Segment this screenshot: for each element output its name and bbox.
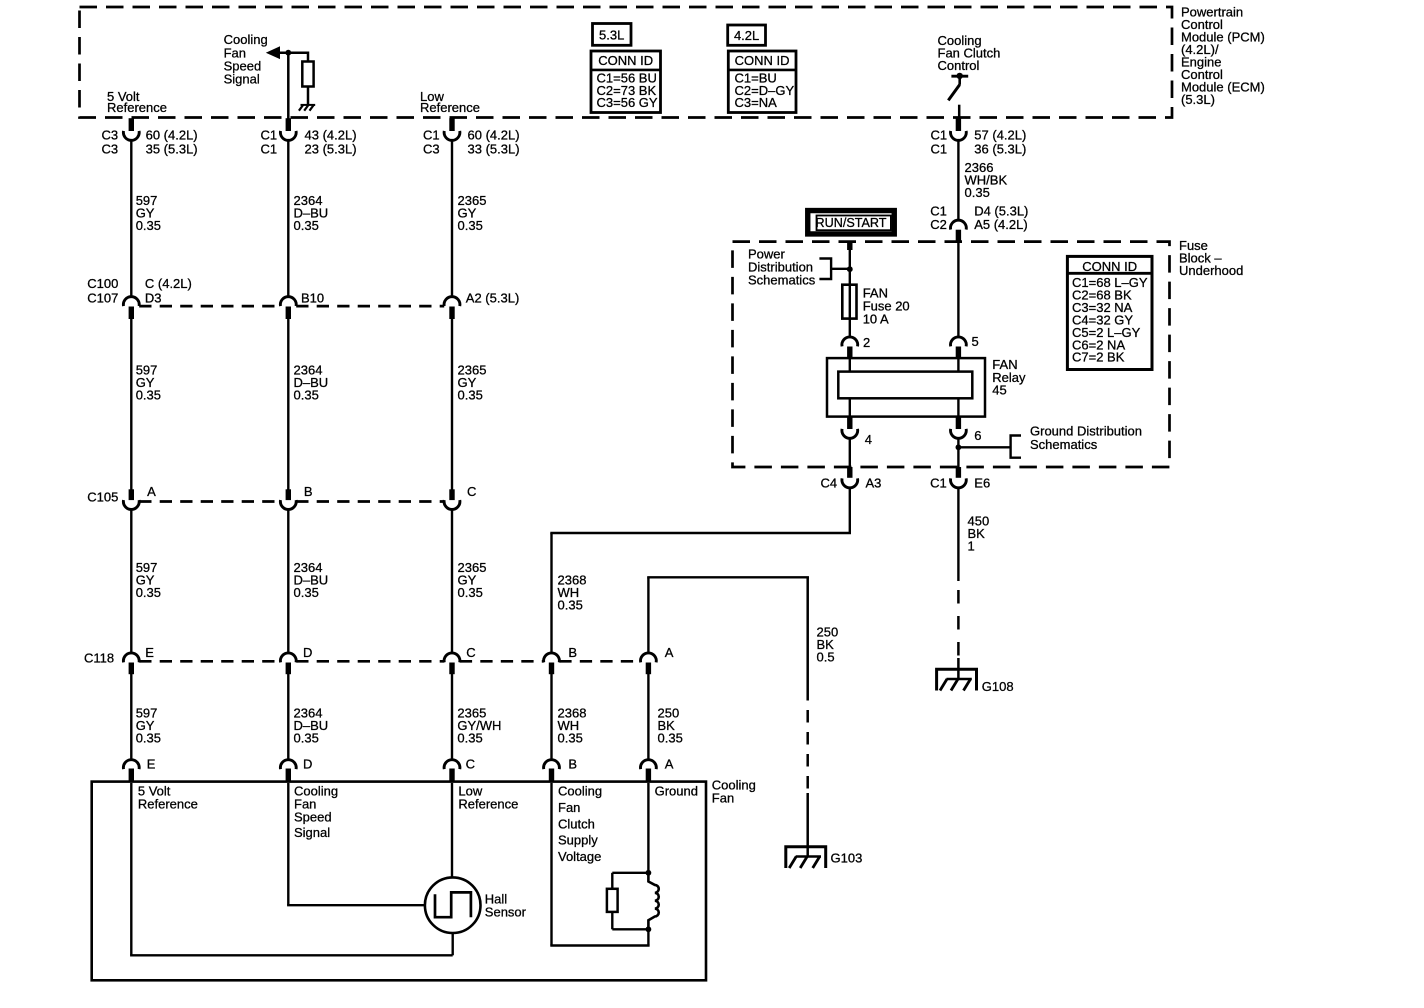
wire relay pin2 internal lower — [849, 398, 851, 416]
wire corner down to resistor — [307, 52, 310, 62]
connector stub below C100 row x=288.3 — [286, 307, 291, 320]
svg-text:10 A: 10 A — [863, 311, 889, 326]
svg-text:Reference: Reference — [458, 796, 518, 811]
switch blade (open) — [948, 85, 959, 101]
wire resistor to chassis ground — [307, 87, 310, 105]
wire through fuse — [849, 285, 851, 338]
connector stub below C118 x=288.3 — [286, 663, 291, 675]
svg-text:0.35: 0.35 — [294, 388, 319, 403]
connector terminal stub at PCM exit x=958.4 — [956, 118, 961, 131]
wire D horizontal to hall sensor — [287, 904, 425, 906]
wire segment C100 to C105 x=452.0 — [451, 319, 453, 490]
svg-text:RUN/START: RUN/START — [816, 215, 887, 230]
svg-text:CONN ID: CONN ID — [598, 53, 653, 68]
svg-text:0.35: 0.35 — [136, 731, 161, 746]
svg-text:Voltage: Voltage — [558, 849, 601, 864]
wire coil top to resistor branch — [612, 872, 649, 874]
wire resistor bottom horizontal — [612, 928, 648, 930]
connector stub into fan box x=551.5 — [549, 769, 554, 782]
PCM/ECM module dashed boundary box — [80, 7, 1173, 118]
dashed connector line C100 seg B — [296, 305, 444, 308]
svg-text:A5 (4.2L): A5 (4.2L) — [974, 217, 1027, 232]
connector cup relay pin 4 — [842, 429, 858, 438]
connector cup C105 x=131.3 — [123, 500, 139, 509]
connector dome C1/C2 (fuse block entry) — [951, 220, 967, 229]
svg-text:Speed: Speed — [294, 810, 332, 825]
svg-text:Reference: Reference — [138, 796, 198, 811]
wire segment C105 to C118 x=452.0 — [451, 510, 453, 654]
connector stub into fan box x=452.0 — [449, 769, 454, 782]
connector stub above C105 x=131.3 — [129, 489, 134, 500]
svg-text:C3: C3 — [423, 141, 440, 156]
wire arrow to resistor corner — [279, 51, 309, 54]
svg-text:C: C — [467, 484, 476, 499]
connector dome C118 x=131.3 — [123, 653, 139, 662]
svg-text:C2: C2 — [930, 217, 947, 232]
svg-text:C3: C3 — [102, 141, 119, 156]
svg-text:Cooling: Cooling — [558, 784, 602, 799]
svg-text:C100: C100 — [87, 276, 118, 291]
svg-text:0.35: 0.35 — [294, 731, 319, 746]
wire 2368 from C4/A3 elbow horizontal — [550, 532, 851, 534]
connector dome fan box x=648.4 — [641, 760, 657, 769]
connector cup relay pin 6 — [951, 429, 967, 438]
svg-text:A2 (5.3L): A2 (5.3L) — [466, 291, 519, 306]
wire segment C100 to C105 x=131.3 — [130, 319, 132, 490]
connector dome C100 row x=288.3 — [280, 297, 296, 306]
node junction dot coil top — [646, 870, 652, 876]
switch stem — [958, 76, 961, 85]
fuse F1 FAN 10A body — [842, 285, 856, 319]
svg-text:45: 45 — [992, 383, 1006, 398]
dashed connector line C118 seg D — [559, 660, 640, 663]
connector dome C100 row x=452.0 — [444, 297, 460, 306]
svg-text:B: B — [568, 757, 577, 772]
hall sensor square-wave glyph — [435, 892, 471, 917]
svg-text:0.35: 0.35 — [458, 218, 483, 233]
svg-text:G108: G108 — [982, 679, 1014, 694]
svg-text:5: 5 — [972, 334, 979, 349]
CONN ID table (5.3L) — [591, 51, 661, 113]
svg-text:0.35: 0.35 — [558, 598, 583, 613]
connector stub relay pin 6 — [956, 417, 961, 429]
connector dome fan box x=131.3 — [123, 760, 139, 769]
connector cup C105 x=288.3 — [280, 500, 296, 509]
svg-text:G103: G103 — [831, 851, 863, 866]
svg-text:D: D — [303, 757, 312, 772]
svg-text:Reference: Reference — [107, 100, 167, 115]
svg-text:C105: C105 — [87, 490, 118, 505]
wire resistor bottom down — [611, 912, 613, 929]
CONN ID table (fuse block underhood) — [1067, 256, 1152, 369]
dashed connector line C105 seg A — [139, 500, 280, 503]
svg-text:33 (5.3L): 33 (5.3L) — [468, 141, 520, 156]
svg-text:Schematics: Schematics — [1030, 437, 1098, 452]
wire A (ground) down to clutch coil — [647, 783, 649, 873]
wire segment C118 to fan box x=131.3 — [130, 674, 132, 760]
svg-text:0.35: 0.35 — [294, 218, 319, 233]
wire switch to PCM edge — [958, 105, 961, 119]
svg-text:Reference: Reference — [420, 100, 480, 115]
svg-text:2: 2 — [863, 335, 870, 350]
connector stub above C105 x=452.0 — [449, 489, 454, 500]
svg-text:E6: E6 — [974, 476, 990, 491]
wire coil bottom to B horizontal — [647, 929, 649, 945]
wire relay pin2 internal upper — [849, 358, 851, 372]
resistor R1 (PCM pull-down) — [302, 62, 313, 87]
ground G103 symbol — [786, 847, 826, 868]
connector stub RUN/START into fuse block — [847, 242, 852, 250]
svg-text:6: 6 — [974, 428, 981, 443]
svg-text:Schematics: Schematics — [748, 273, 816, 288]
connector dome relay pin 5 — [951, 337, 967, 346]
connector stub C1/C2 into fuse block — [956, 230, 961, 242]
wire E bottom horizontal to hall sensor — [130, 954, 453, 956]
svg-text:C118: C118 — [84, 651, 114, 666]
relay K1 FAN Relay 45 outer box — [827, 358, 985, 417]
connector stub below C118 x=551.5 — [549, 663, 554, 675]
wire segment C118 to fan box x=452.0 — [451, 674, 453, 760]
connector cup at PCM exit x=452.0 — [444, 131, 460, 140]
svg-text:Sensor: Sensor — [485, 905, 527, 920]
svg-text:0.35: 0.35 — [136, 585, 161, 600]
connector stub below C100 row x=452.0 — [449, 307, 454, 320]
connector terminal stub at PCM exit x=131.3 — [129, 118, 134, 131]
wire 250 BK drop solid upper — [806, 577, 809, 688]
svg-text:A3: A3 — [866, 476, 882, 491]
wire segment PCM to C100 x=131.3 — [130, 140, 132, 297]
wire segment PCM to C100 x=452.0 — [451, 140, 453, 297]
svg-text:5.3L: 5.3L — [599, 27, 624, 42]
wire segment C118 to fan box x=551.5 — [550, 674, 552, 760]
connector cup at PCM exit x=958.4 — [951, 131, 967, 140]
svg-text:CONN ID: CONN ID — [1082, 259, 1137, 274]
svg-text:C4: C4 — [821, 476, 838, 491]
connector stub relay pin 2 — [847, 347, 852, 359]
wire segment C105 to C118 x=131.3 — [130, 510, 132, 654]
wire segment C118 to fan box x=288.3 — [287, 674, 289, 760]
CONN ID header separator (4.2L) — [728, 69, 796, 72]
wire to ground distribution bracket — [958, 446, 1010, 448]
connector dome C118 x=551.5 — [544, 653, 560, 662]
connector stub below C118 x=648.4 — [646, 663, 651, 675]
svg-text:E: E — [145, 645, 154, 660]
svg-text:B: B — [304, 484, 313, 499]
connector dome C118 x=648.4 — [641, 653, 657, 662]
connector stub into fan box x=131.3 — [129, 769, 134, 782]
inductor L1 fan clutch coil — [648, 873, 658, 930]
connector cup C105 x=452.0 — [444, 500, 460, 509]
svg-text:60 (4.2L): 60 (4.2L) — [468, 127, 520, 142]
svg-text:0.35: 0.35 — [136, 388, 161, 403]
svg-text:C1: C1 — [930, 476, 947, 491]
ground G108 symbol — [937, 658, 977, 691]
node junction dot at speed signal tap — [285, 50, 291, 56]
svg-text:C3=NA: C3=NA — [735, 95, 778, 110]
svg-text:C107: C107 — [87, 291, 118, 306]
dashed connector line C100 seg A — [139, 305, 280, 308]
svg-text:Underhood: Underhood — [1179, 263, 1243, 278]
dashed connector line C118 seg B — [296, 660, 444, 663]
bracket to power distribution schematics — [819, 259, 831, 280]
connector stub below C118 x=452.0 — [449, 663, 454, 675]
svg-text:A: A — [665, 757, 674, 772]
RUN/START power feed box (thick) — [808, 211, 895, 234]
wire relay pin5 internal lower — [957, 398, 959, 416]
svg-text:C (4.2L): C (4.2L) — [145, 276, 192, 291]
wire B (clutch supply) down inside box — [550, 783, 552, 946]
svg-text:43 (4.2L): 43 (4.2L) — [305, 127, 357, 142]
svg-text:1: 1 — [968, 539, 975, 554]
connector dome fan box x=551.5 — [544, 760, 560, 769]
svg-text:Fan: Fan — [558, 800, 580, 815]
wire 250 BK drop solid lower — [806, 793, 809, 847]
relay inner contact bar — [838, 372, 972, 399]
wire RUN/START to fuse — [849, 250, 851, 286]
svg-text:C7=2 BK: C7=2 BK — [1072, 350, 1125, 365]
node junction dot ground distribution tap — [956, 444, 962, 450]
svg-text:Signal: Signal — [294, 825, 330, 840]
node junction dot power distribution tap — [847, 266, 853, 272]
CONN ID table (4.2L) — [728, 51, 796, 113]
wire 450 BK solid segment — [957, 488, 959, 581]
svg-text:0.5: 0.5 — [817, 650, 835, 665]
wire speed signal tap down to PCM edge — [287, 53, 290, 119]
svg-text:C1: C1 — [931, 127, 948, 142]
hall sensor circle — [425, 877, 481, 933]
svg-text:C3=56 GY: C3=56 GY — [597, 95, 658, 110]
svg-text:0.35: 0.35 — [294, 585, 319, 600]
svg-text:B: B — [568, 645, 577, 660]
svg-text:0.35: 0.35 — [658, 731, 683, 746]
connector dome fan box x=288.3 — [280, 760, 296, 769]
wire segment C100 to C105 x=288.3 — [287, 319, 289, 490]
connector dome relay pin 2 — [842, 337, 858, 346]
svg-text:0.35: 0.35 — [458, 388, 483, 403]
svg-text:A: A — [147, 484, 156, 499]
connector stub below C100 row x=131.3 — [129, 307, 134, 320]
wire B bottom horizontal — [550, 944, 649, 946]
wire 250 BK drop dashed — [806, 688, 809, 789]
dashed connector line C118 seg C — [460, 660, 544, 663]
fuse block underhood dashed boundary box — [733, 242, 1170, 467]
label box 5.3L — [593, 24, 632, 46]
dashed connector line C105 seg B — [296, 500, 444, 503]
resistor R2 (fan clutch) — [607, 889, 618, 912]
signal arrow head — [266, 46, 280, 59]
node junction dot coil bottom — [646, 926, 652, 932]
bracket to ground distribution schematics — [1011, 436, 1021, 458]
svg-text:4: 4 — [865, 432, 872, 447]
ground chassis symbol (PCM internal) — [299, 105, 315, 111]
CONN ID header separator (fuse block) — [1067, 272, 1152, 275]
wire segment PCM to C100 x=288.3 — [287, 140, 289, 297]
cooling fan component box — [92, 782, 706, 981]
connector dome fan box x=452.0 — [444, 760, 460, 769]
connector dome C100 row x=131.3 — [123, 297, 139, 306]
svg-text:0.35: 0.35 — [558, 731, 583, 746]
switch fixed contact bar — [951, 75, 968, 78]
connector cup C4/A3 — [842, 478, 858, 487]
wire 250 elbow horizontal to G103 drop — [647, 576, 809, 578]
svg-text:36 (5.3L): 36 (5.3L) — [974, 141, 1026, 156]
svg-text:Clutch: Clutch — [558, 816, 595, 831]
wire 250 vertical col5 to C118 — [647, 577, 649, 653]
svg-text:C1: C1 — [261, 141, 278, 156]
connector stub above C105 x=288.3 — [286, 489, 291, 500]
connector cup C1/E6 — [951, 478, 967, 487]
wire 2368 vertical col4 to C118 — [550, 533, 552, 653]
svg-text:Fan: Fan — [712, 791, 734, 806]
dashed connector line C118 seg A — [139, 660, 280, 663]
svg-text:60 (4.2L): 60 (4.2L) — [146, 127, 198, 142]
connector cup at PCM exit x=131.3 — [123, 131, 139, 140]
svg-text:0.35: 0.35 — [136, 218, 161, 233]
connector cup at PCM exit x=288.3 — [280, 131, 296, 140]
wire D (speed signal) down inside box — [287, 783, 289, 905]
svg-text:D3: D3 — [145, 291, 162, 306]
svg-text:CONN ID: CONN ID — [735, 53, 790, 68]
svg-text:B10: B10 — [301, 291, 324, 306]
svg-text:Ground: Ground — [655, 783, 698, 798]
wire segment C118 to fan box x=648.4 — [647, 674, 649, 760]
wire hall sensor bottom — [452, 933, 454, 955]
svg-text:0.35: 0.35 — [457, 731, 482, 746]
wire relay pin 6 down — [957, 438, 959, 467]
svg-text:C1: C1 — [423, 127, 440, 142]
svg-text:57 (4.2L): 57 (4.2L) — [974, 127, 1026, 142]
svg-text:C: C — [466, 645, 475, 660]
connector terminal stub at PCM exit x=288.3 — [286, 118, 291, 131]
svg-text:A: A — [665, 645, 674, 660]
svg-text:C3: C3 — [102, 127, 119, 142]
connector dome C118 x=452.0 — [444, 653, 460, 662]
connector stub C1/E6 — [956, 467, 961, 478]
svg-text:Signal: Signal — [224, 72, 260, 87]
svg-text:35 (5.3L): 35 (5.3L) — [146, 141, 198, 156]
svg-text:E: E — [147, 757, 156, 772]
svg-text:0.35: 0.35 — [965, 185, 990, 200]
svg-text:C: C — [466, 757, 475, 772]
connector stub relay pin 4 — [847, 417, 852, 429]
connector stub into fan box x=648.4 — [646, 769, 651, 782]
wire relay pin 4 down — [849, 438, 851, 467]
svg-text:Control: Control — [938, 58, 980, 73]
wire segment C105 to C118 x=288.3 — [287, 510, 289, 654]
svg-text:4.2L: 4.2L — [734, 28, 759, 43]
svg-text:C1: C1 — [931, 141, 948, 156]
svg-text:Supply: Supply — [558, 833, 598, 848]
RUN/START inner box — [817, 216, 891, 231]
svg-text:(5.3L): (5.3L) — [1181, 92, 1215, 107]
CONN ID header separator (5.3L) — [591, 69, 661, 72]
connector stub C4/A3 — [847, 467, 852, 478]
connector stub relay pin 5 — [956, 347, 961, 359]
wire relay pin5 internal upper — [957, 358, 959, 372]
label box 4.2L — [728, 25, 766, 45]
wire C (low ref) to hall sensor top — [451, 783, 453, 878]
wire C1/C2 connector to relay pin 5 — [957, 242, 959, 337]
svg-text:C1: C1 — [261, 127, 278, 142]
connector terminal stub at PCM exit x=452.0 — [449, 118, 454, 131]
wire E (5V ref) down inside box — [130, 783, 132, 955]
wire resistor branch down — [611, 873, 613, 889]
connector dome C118 x=288.3 — [280, 653, 296, 662]
wire 450 BK dashed segment — [957, 590, 960, 658]
svg-text:D: D — [303, 645, 312, 660]
svg-text:0.35: 0.35 — [458, 585, 483, 600]
switch contact nub — [957, 73, 963, 79]
wire 2368 from C4/A3 down to elbow — [849, 488, 851, 533]
svg-text:23 (5.3L): 23 (5.3L) — [305, 141, 357, 156]
connector stub into fan box x=288.3 — [286, 769, 291, 782]
connector stub below C118 x=131.3 — [129, 663, 134, 675]
wire 2366 from PCM connector down — [957, 140, 959, 220]
